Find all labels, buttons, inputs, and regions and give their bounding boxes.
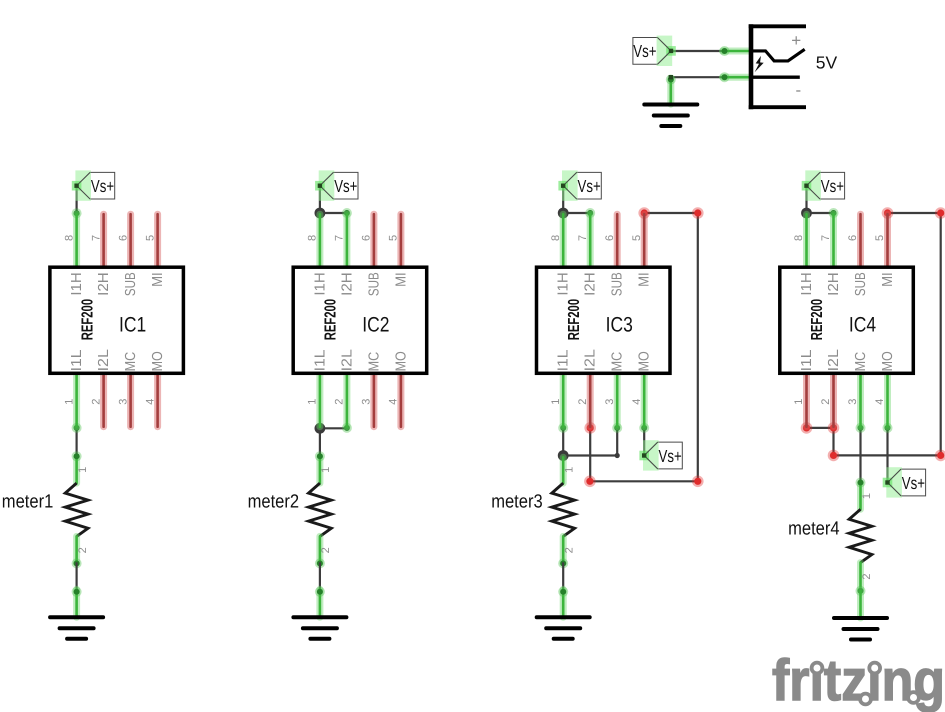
IC2 pin 5 (MI) leg xyxy=(397,214,404,267)
svg-text:1: 1 xyxy=(63,399,75,405)
meter4 pin1 dot xyxy=(856,478,866,488)
wire IC4 right rail vertical xyxy=(940,213,942,455)
svg-text:2: 2 xyxy=(320,547,332,553)
IC3 pin 6 (SUB) leg xyxy=(614,214,621,267)
svg-text:I2H: I2H xyxy=(583,272,599,296)
red dot IC3 pin 2 xyxy=(584,422,596,434)
net label Vs+ (IC4 MO) xyxy=(883,467,926,497)
svg-text:I1H: I1H xyxy=(556,272,572,295)
svg-text:SUB: SUB xyxy=(123,272,139,296)
svg-text:SUB: SUB xyxy=(366,272,382,296)
svg-text:3: 3 xyxy=(847,399,859,405)
net label Vs+ (IC3) xyxy=(558,170,601,200)
IC4 pin 2 (I2L) leg xyxy=(830,373,837,426)
meter4 pin2 dot xyxy=(856,586,866,596)
IC1 pin 4 (MO) leg xyxy=(154,373,161,426)
IC4 pin 6 (SUB) leg xyxy=(857,214,864,267)
ground GND2 wire end dot xyxy=(72,587,82,597)
svg-text:Vs+: Vs+ xyxy=(633,41,656,61)
IC IC2 REF200 xyxy=(293,214,427,427)
ground GND3 wire end dot xyxy=(315,587,325,597)
wire IC3 pin 4 down to Vs+ label xyxy=(643,428,645,456)
IC1 pin 3 (MC) leg xyxy=(127,373,134,426)
resistor meter3 xyxy=(491,457,575,563)
ground symbol GND3 xyxy=(293,617,346,639)
wire meter2 to ground xyxy=(319,563,321,590)
IC3 pin 4 (MO) leg xyxy=(641,373,648,426)
svg-text:MI: MI xyxy=(637,272,653,287)
svg-text:I1H: I1H xyxy=(69,272,85,295)
ground GND3 pin leg xyxy=(316,589,323,617)
IC3 bend dot pin3 column xyxy=(615,453,620,458)
IC3 pin 5 (MI) leg xyxy=(641,214,648,267)
ground symbol GND1 xyxy=(644,105,697,127)
red dot IC4 right rail top corner xyxy=(935,207,945,219)
junction IC2 pins 8/7/Vs+ xyxy=(315,208,326,219)
IC IC1 REF200 xyxy=(50,214,184,427)
svg-text:7: 7 xyxy=(90,235,102,241)
svg-text:Vs+: Vs+ xyxy=(91,176,114,196)
meter2 pin1 dot xyxy=(315,451,325,461)
svg-text:3: 3 xyxy=(604,399,616,405)
junction IC2 pins 1/2/meter2 xyxy=(315,423,326,434)
wire IC4 bottom rail horizontal xyxy=(834,454,941,456)
wire Vs+ label to IC3 junction xyxy=(562,186,564,213)
IC1 pin 6 (SUB) leg xyxy=(127,214,134,267)
ground GND2 pin leg xyxy=(73,589,80,617)
IC4 pin 7 wire end dot xyxy=(829,208,839,218)
svg-text:IC4: IC4 xyxy=(849,313,876,336)
svg-text:Vs+: Vs+ xyxy=(902,473,925,493)
wire battery negative to ground (horizontal) xyxy=(671,76,727,78)
svg-text:-: - xyxy=(795,81,801,100)
IC2 pin 7 wire end dot xyxy=(342,208,352,218)
svg-text:SUB: SUB xyxy=(853,272,869,296)
wire IC3 pin 3 down xyxy=(616,428,618,456)
svg-text:5: 5 xyxy=(388,235,400,241)
svg-text:2: 2 xyxy=(564,547,576,553)
IC1 pin 1 wire end dot xyxy=(72,423,82,433)
svg-text:MI: MI xyxy=(880,272,896,287)
red dot IC3 bottom rail left corner xyxy=(584,476,596,488)
red dot IC4 bottom rail left corner xyxy=(828,450,840,462)
meter4 body zigzag xyxy=(849,509,872,562)
net label Vs+ (battery) xyxy=(633,36,676,66)
IC1 pin 7 (I2H) leg xyxy=(100,214,107,267)
meter4 lead pin 2 xyxy=(857,563,864,590)
svg-text:I1L: I1L xyxy=(556,350,572,372)
meter2 body zigzag xyxy=(309,483,332,536)
wire IC2 pin 1 to meter2 xyxy=(319,428,321,456)
IC1 pin 2 (I2L) leg xyxy=(100,373,107,426)
svg-text:8: 8 xyxy=(550,235,562,241)
svg-text:meter4: meter4 xyxy=(788,518,840,539)
IC2 pin 6 (SUB) leg xyxy=(370,214,377,267)
meter2 pin2 dot xyxy=(315,558,325,568)
resistor meter2 xyxy=(248,457,333,563)
wire end dot on battery - xyxy=(720,72,730,82)
svg-text:2: 2 xyxy=(861,573,873,579)
meter3 body zigzag xyxy=(552,483,575,536)
svg-text:Vs+: Vs+ xyxy=(578,176,601,196)
meter2 lead pin 1 xyxy=(316,457,323,483)
wire bend down to ground xyxy=(670,77,672,100)
wire end dot on battery + xyxy=(720,46,730,56)
svg-text:meter3: meter3 xyxy=(491,492,543,513)
IC IC3 REF200 xyxy=(537,214,671,427)
wire IC2 pin 1 to pin 2 xyxy=(320,427,347,429)
IC1 pin 8 wire end dot xyxy=(72,208,82,218)
svg-text:1: 1 xyxy=(793,399,805,405)
junction IC3 pins 8/7/Vs+ xyxy=(558,208,569,219)
IC4 pin 5 (MI) leg xyxy=(884,214,891,267)
IC4 pin 1 (I1L) leg xyxy=(803,373,810,426)
meter1 body zigzag xyxy=(65,483,88,536)
red dot IC4 pin 1 xyxy=(801,422,813,434)
wire meter1 to ground xyxy=(75,563,77,590)
IC1 pin 1 (I1L) leg xyxy=(73,373,80,426)
ground GND4 pin leg xyxy=(560,589,567,617)
svg-text:MI: MI xyxy=(393,272,409,287)
IC2 pin 1 (I1L) leg xyxy=(316,373,323,426)
red dot IC3 pin 5 xyxy=(638,207,650,219)
svg-text:meter1: meter1 xyxy=(2,492,54,513)
IC2 pin 2 wire end dot xyxy=(342,423,352,433)
svg-text:2: 2 xyxy=(90,399,102,405)
svg-text:I2H: I2H xyxy=(339,272,355,296)
meter3 pin2 dot xyxy=(558,558,568,568)
IC2 body outline xyxy=(293,267,427,373)
IC4 pin 8 (I1H) leg xyxy=(803,214,810,267)
IC3 pin 3 wire end dot xyxy=(612,423,622,433)
svg-text:4: 4 xyxy=(144,399,156,405)
wire IC4 pin 1 to pin 2 xyxy=(807,427,834,429)
svg-text:5: 5 xyxy=(144,235,156,241)
red dot IC4 pin 5 xyxy=(882,207,894,219)
svg-text:5: 5 xyxy=(631,235,643,241)
IC4 pin 4 (MO) leg xyxy=(884,373,891,426)
wire IC4 pin 2 down to bottom rail xyxy=(832,428,834,456)
IC2 pin 7 (I2H) leg xyxy=(343,214,350,267)
IC4 pin 4 wire end dot xyxy=(883,423,893,433)
svg-text:7: 7 xyxy=(820,235,832,241)
wire Vs+ label to IC4 junction xyxy=(805,186,807,213)
wire end dot on ground xyxy=(666,75,676,85)
battery lightning bolt icon xyxy=(755,56,764,72)
svg-text:+: + xyxy=(791,31,801,50)
red dot IC4 right rail bottom corner xyxy=(935,450,945,462)
wire IC3 right rail vertical xyxy=(697,213,699,481)
meter1 pin1 dot xyxy=(72,451,82,461)
wire IC1 pin 1 to meter1 xyxy=(75,428,77,456)
ground symbol GND5 xyxy=(834,618,887,640)
red dot IC4 pin 2 xyxy=(828,422,840,434)
IC2 pin 4 (MO) leg xyxy=(397,373,404,426)
svg-text:MO: MO xyxy=(150,351,166,371)
ground GND4 wire end dot xyxy=(558,587,568,597)
IC3 pin 3 (MC) leg xyxy=(614,373,621,426)
svg-text:MO: MO xyxy=(880,351,896,371)
svg-text:5: 5 xyxy=(874,235,886,241)
wire meter3 to ground xyxy=(562,563,564,590)
svg-text:I1L: I1L xyxy=(312,350,328,372)
ground symbol GND2 xyxy=(50,617,103,639)
meter1 lead pin 1 xyxy=(73,457,80,483)
wire IC4 pin 4 down to Vs+ label xyxy=(886,428,888,483)
svg-text:MC: MC xyxy=(610,352,626,372)
svg-text:meter2: meter2 xyxy=(248,492,300,513)
wire IC3 junction to pin 3 column xyxy=(563,454,617,456)
battery pin - leg xyxy=(723,74,750,81)
IC1 pin 8 (I1H) leg xyxy=(73,214,80,267)
IC2 pin 8 (I1H) leg xyxy=(316,214,323,267)
svg-text:IC1: IC1 xyxy=(119,313,146,336)
wire IC3 pin 8 to pin 7 xyxy=(563,212,590,214)
svg-text:3: 3 xyxy=(361,399,373,405)
svg-text:I1H: I1H xyxy=(312,272,328,295)
IC1 body outline xyxy=(50,267,184,373)
svg-text:1: 1 xyxy=(861,493,873,499)
IC3 pin 1 (I1L) leg xyxy=(560,373,567,426)
svg-text:MC: MC xyxy=(853,352,869,372)
svg-text:4: 4 xyxy=(388,399,400,405)
IC3 pin 7 (I2H) leg xyxy=(587,214,594,267)
net label Vs+ (IC3 MO) xyxy=(639,440,682,470)
IC2 pin 2 (I2L) leg xyxy=(343,373,350,426)
svg-text:I1L: I1L xyxy=(799,350,815,372)
battery BAT1 body xyxy=(749,24,806,109)
IC4 pin 3 (MC) leg xyxy=(857,373,864,426)
wire IC3 pin 1 down to junction xyxy=(562,428,564,456)
svg-text:REF200: REF200 xyxy=(79,299,96,340)
svg-text:6: 6 xyxy=(117,235,129,241)
svg-text:8: 8 xyxy=(307,235,319,241)
IC4 pin 3 wire end dot xyxy=(856,423,866,433)
wire Vs+ label to IC2 junction xyxy=(319,186,321,213)
svg-text:1: 1 xyxy=(77,467,89,473)
svg-text:6: 6 xyxy=(604,235,616,241)
wire IC4 pin 8 to pin 7 xyxy=(807,212,834,214)
IC1 pin 5 (MI) leg xyxy=(154,214,161,267)
wire IC3 bottom rail horizontal xyxy=(590,480,698,482)
battery pin + leg xyxy=(723,48,750,55)
svg-text:MI: MI xyxy=(150,272,166,287)
IC3 pin 7 wire end dot xyxy=(585,208,595,218)
svg-text:REF200: REF200 xyxy=(566,299,583,340)
svg-text:5V: 5V xyxy=(816,53,838,73)
ground symbol GND4 xyxy=(537,617,590,639)
svg-text:8: 8 xyxy=(793,235,805,241)
svg-text:Vs+: Vs+ xyxy=(334,176,357,196)
svg-text:Vs+: Vs+ xyxy=(821,176,844,196)
svg-text:4: 4 xyxy=(631,399,643,405)
svg-text:4: 4 xyxy=(874,399,886,405)
svg-text:I2L: I2L xyxy=(339,349,355,371)
IC3 pin 1 wire end dot xyxy=(558,423,568,433)
resistor meter1 xyxy=(2,457,89,563)
svg-text:IC3: IC3 xyxy=(606,313,633,336)
IC4 pin 7 (I2H) leg xyxy=(830,214,837,267)
svg-text:REF200: REF200 xyxy=(809,299,826,340)
IC3 pin 8 (I1H) leg xyxy=(560,214,567,267)
junction IC3 pins 1/3/meter3 xyxy=(558,450,569,461)
IC2 pin 3 (MC) leg xyxy=(370,373,377,426)
svg-text:1: 1 xyxy=(550,399,562,405)
svg-text:Vs+: Vs+ xyxy=(659,446,682,466)
bend point square xyxy=(669,75,673,79)
meter2 lead pin 2 xyxy=(316,536,323,563)
svg-text:I1H: I1H xyxy=(799,272,815,295)
svg-text:MO: MO xyxy=(637,351,653,371)
svg-text:2: 2 xyxy=(77,547,89,553)
svg-text:6: 6 xyxy=(361,235,373,241)
svg-text:7: 7 xyxy=(577,235,589,241)
svg-text:I2L: I2L xyxy=(826,349,842,371)
svg-text:1: 1 xyxy=(320,467,332,473)
red dot IC3 right rail top corner xyxy=(692,207,704,219)
net label Vs+ (IC1) xyxy=(72,170,115,200)
svg-text:6: 6 xyxy=(847,235,859,241)
svg-text:3: 3 xyxy=(117,399,129,405)
wire IC3 pin 2 down to bottom rail xyxy=(589,428,591,481)
meter1 pin2 dot xyxy=(72,558,82,568)
svg-text:1: 1 xyxy=(564,467,576,473)
svg-text:8: 8 xyxy=(63,235,75,241)
wire IC4 pin 3 down to meter4 xyxy=(859,428,861,483)
IC4 body outline xyxy=(780,267,914,373)
meter4 lead pin 1 xyxy=(857,484,864,510)
net label Vs+ (IC2) xyxy=(315,170,358,200)
IC IC4 REF200 xyxy=(780,214,914,427)
red dot IC3 right rail bottom corner xyxy=(692,476,704,488)
svg-text:2: 2 xyxy=(820,399,832,405)
IC3 pin 2 (I2L) leg xyxy=(587,373,594,426)
svg-text:I1L: I1L xyxy=(69,350,85,372)
meter3 lead pin 1 xyxy=(560,457,567,483)
svg-text:7: 7 xyxy=(334,235,346,241)
IC3 body outline xyxy=(537,267,671,373)
svg-text:2: 2 xyxy=(577,399,589,405)
svg-text:MC: MC xyxy=(366,352,382,372)
ground GND5 pin leg xyxy=(857,591,864,618)
ground GND1 pin leg xyxy=(667,79,674,105)
meter3 lead pin 2 xyxy=(560,536,567,563)
svg-text:SUB: SUB xyxy=(610,272,626,296)
meter1 lead pin 2 xyxy=(73,536,80,563)
svg-text:I2L: I2L xyxy=(583,349,599,371)
svg-text:IC2: IC2 xyxy=(362,313,389,336)
svg-text:I2H: I2H xyxy=(826,272,842,296)
svg-text:REF200: REF200 xyxy=(323,299,340,340)
wire IC3 pin 5 to right rail xyxy=(644,212,698,214)
svg-text:1: 1 xyxy=(307,399,319,405)
wire IC4 pin 5 to right rail xyxy=(888,212,941,214)
resistor meter4 xyxy=(788,484,873,590)
wire Vs+ label to IC1 pin 8 xyxy=(75,186,77,214)
wire IC2 pin 8 to pin 7 xyxy=(320,212,347,214)
svg-text:I2L: I2L xyxy=(96,349,112,371)
junction IC4 pins 8/7/Vs+ xyxy=(801,208,812,219)
svg-text:I2H: I2H xyxy=(96,272,112,296)
fritzing watermark logo xyxy=(772,648,945,712)
net label Vs+ (IC4) xyxy=(802,170,845,200)
svg-text:MO: MO xyxy=(393,351,409,371)
wire Vs+ label to battery positive xyxy=(671,50,727,52)
svg-text:2: 2 xyxy=(334,399,346,405)
svg-text:frıtzıng: frıtzıng xyxy=(772,648,945,712)
IC3 pin 4 wire end dot xyxy=(639,423,649,433)
svg-text:MC: MC xyxy=(123,352,139,372)
